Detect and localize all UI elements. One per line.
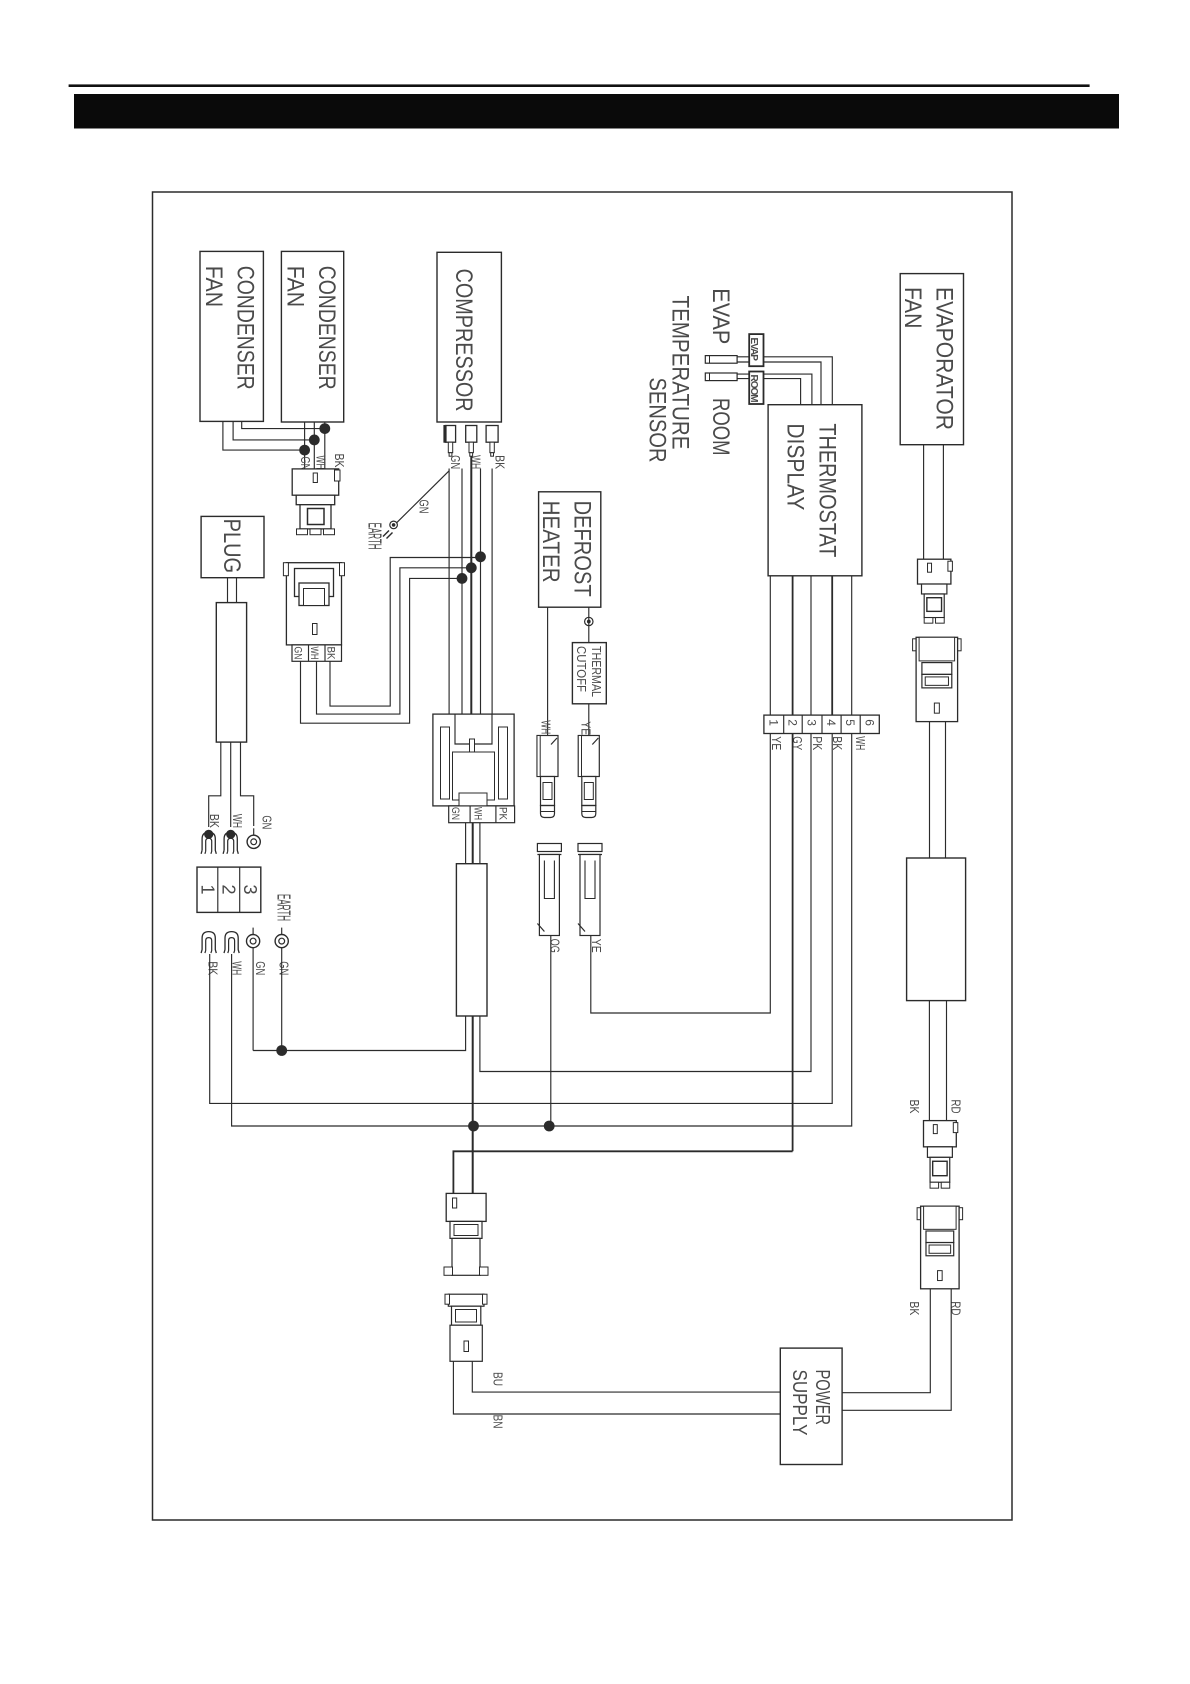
svg-text:BK: BK — [206, 961, 221, 975]
svg-text:FAN: FAN — [200, 266, 227, 308]
svg-text:WH: WH — [472, 807, 484, 820]
svg-text:WH: WH — [308, 647, 320, 660]
svg-text:DISPLAY: DISPLAY — [782, 423, 809, 510]
svg-text:3: 3 — [240, 885, 260, 895]
svg-text:GN: GN — [253, 961, 268, 975]
svg-text:BU: BU — [490, 1372, 505, 1386]
svg-text:BK: BK — [907, 1301, 922, 1315]
svg-text:GN: GN — [449, 807, 461, 820]
svg-text:BK: BK — [207, 814, 222, 828]
svg-text:BK: BK — [830, 736, 845, 750]
svg-text:EARTH: EARTH — [365, 523, 385, 550]
svg-text:BK: BK — [907, 1100, 922, 1114]
svg-text:YE: YE — [769, 736, 784, 750]
svg-text:GN: GN — [259, 815, 274, 829]
svg-text:ROOM: ROOM — [748, 375, 759, 403]
svg-text:SUPPLY: SUPPLY — [788, 1370, 810, 1436]
svg-text:RD: RD — [948, 1301, 963, 1315]
svg-text:2: 2 — [219, 885, 239, 895]
svg-text:CUTOFF: CUTOFF — [574, 646, 589, 692]
svg-text:CONDENSER: CONDENSER — [232, 266, 259, 390]
svg-text:EVAP: EVAP — [748, 338, 759, 362]
svg-text:GN: GN — [417, 500, 432, 514]
svg-text:WH: WH — [538, 720, 553, 734]
svg-text:EVAPORATOR: EVAPORATOR — [931, 287, 958, 430]
svg-text:THERMOSTAT: THERMOSTAT — [814, 423, 841, 557]
svg-text:PLUG: PLUG — [218, 519, 245, 574]
svg-text:FAN: FAN — [899, 287, 926, 329]
svg-text:GN: GN — [448, 455, 463, 469]
svg-text:OG: OG — [548, 939, 563, 953]
svg-text:WH: WH — [230, 814, 245, 828]
svg-text:WH: WH — [314, 455, 329, 469]
svg-text:SENSOR: SENSOR — [644, 378, 671, 463]
svg-text:POWER: POWER — [811, 1370, 833, 1426]
svg-text:HEATER: HEATER — [537, 501, 564, 583]
svg-text:DEFROST: DEFROST — [569, 501, 596, 597]
svg-text:RD: RD — [948, 1100, 963, 1114]
svg-text:YE: YE — [579, 721, 594, 735]
svg-text:COMPRESSOR: COMPRESSOR — [450, 269, 477, 412]
svg-text:GN: GN — [276, 961, 291, 975]
svg-text:GN: GN — [292, 647, 304, 660]
svg-text:CONDENSER: CONDENSER — [313, 266, 340, 390]
svg-text:FAN: FAN — [281, 266, 308, 308]
svg-text:PK: PK — [497, 807, 509, 821]
svg-text:BK: BK — [492, 455, 507, 469]
svg-text:1: 1 — [198, 885, 218, 895]
svg-text:ROOM: ROOM — [707, 398, 734, 456]
svg-text:EVAP: EVAP — [707, 288, 734, 344]
svg-text:THERMAL: THERMAL — [589, 646, 604, 697]
svg-text:BK: BK — [325, 647, 337, 661]
svg-text:PK: PK — [810, 736, 825, 750]
svg-text:BK: BK — [332, 454, 347, 468]
svg-text:EARTH: EARTH — [274, 894, 294, 921]
svg-text:WH: WH — [853, 736, 868, 750]
svg-text:BN: BN — [490, 1415, 505, 1429]
